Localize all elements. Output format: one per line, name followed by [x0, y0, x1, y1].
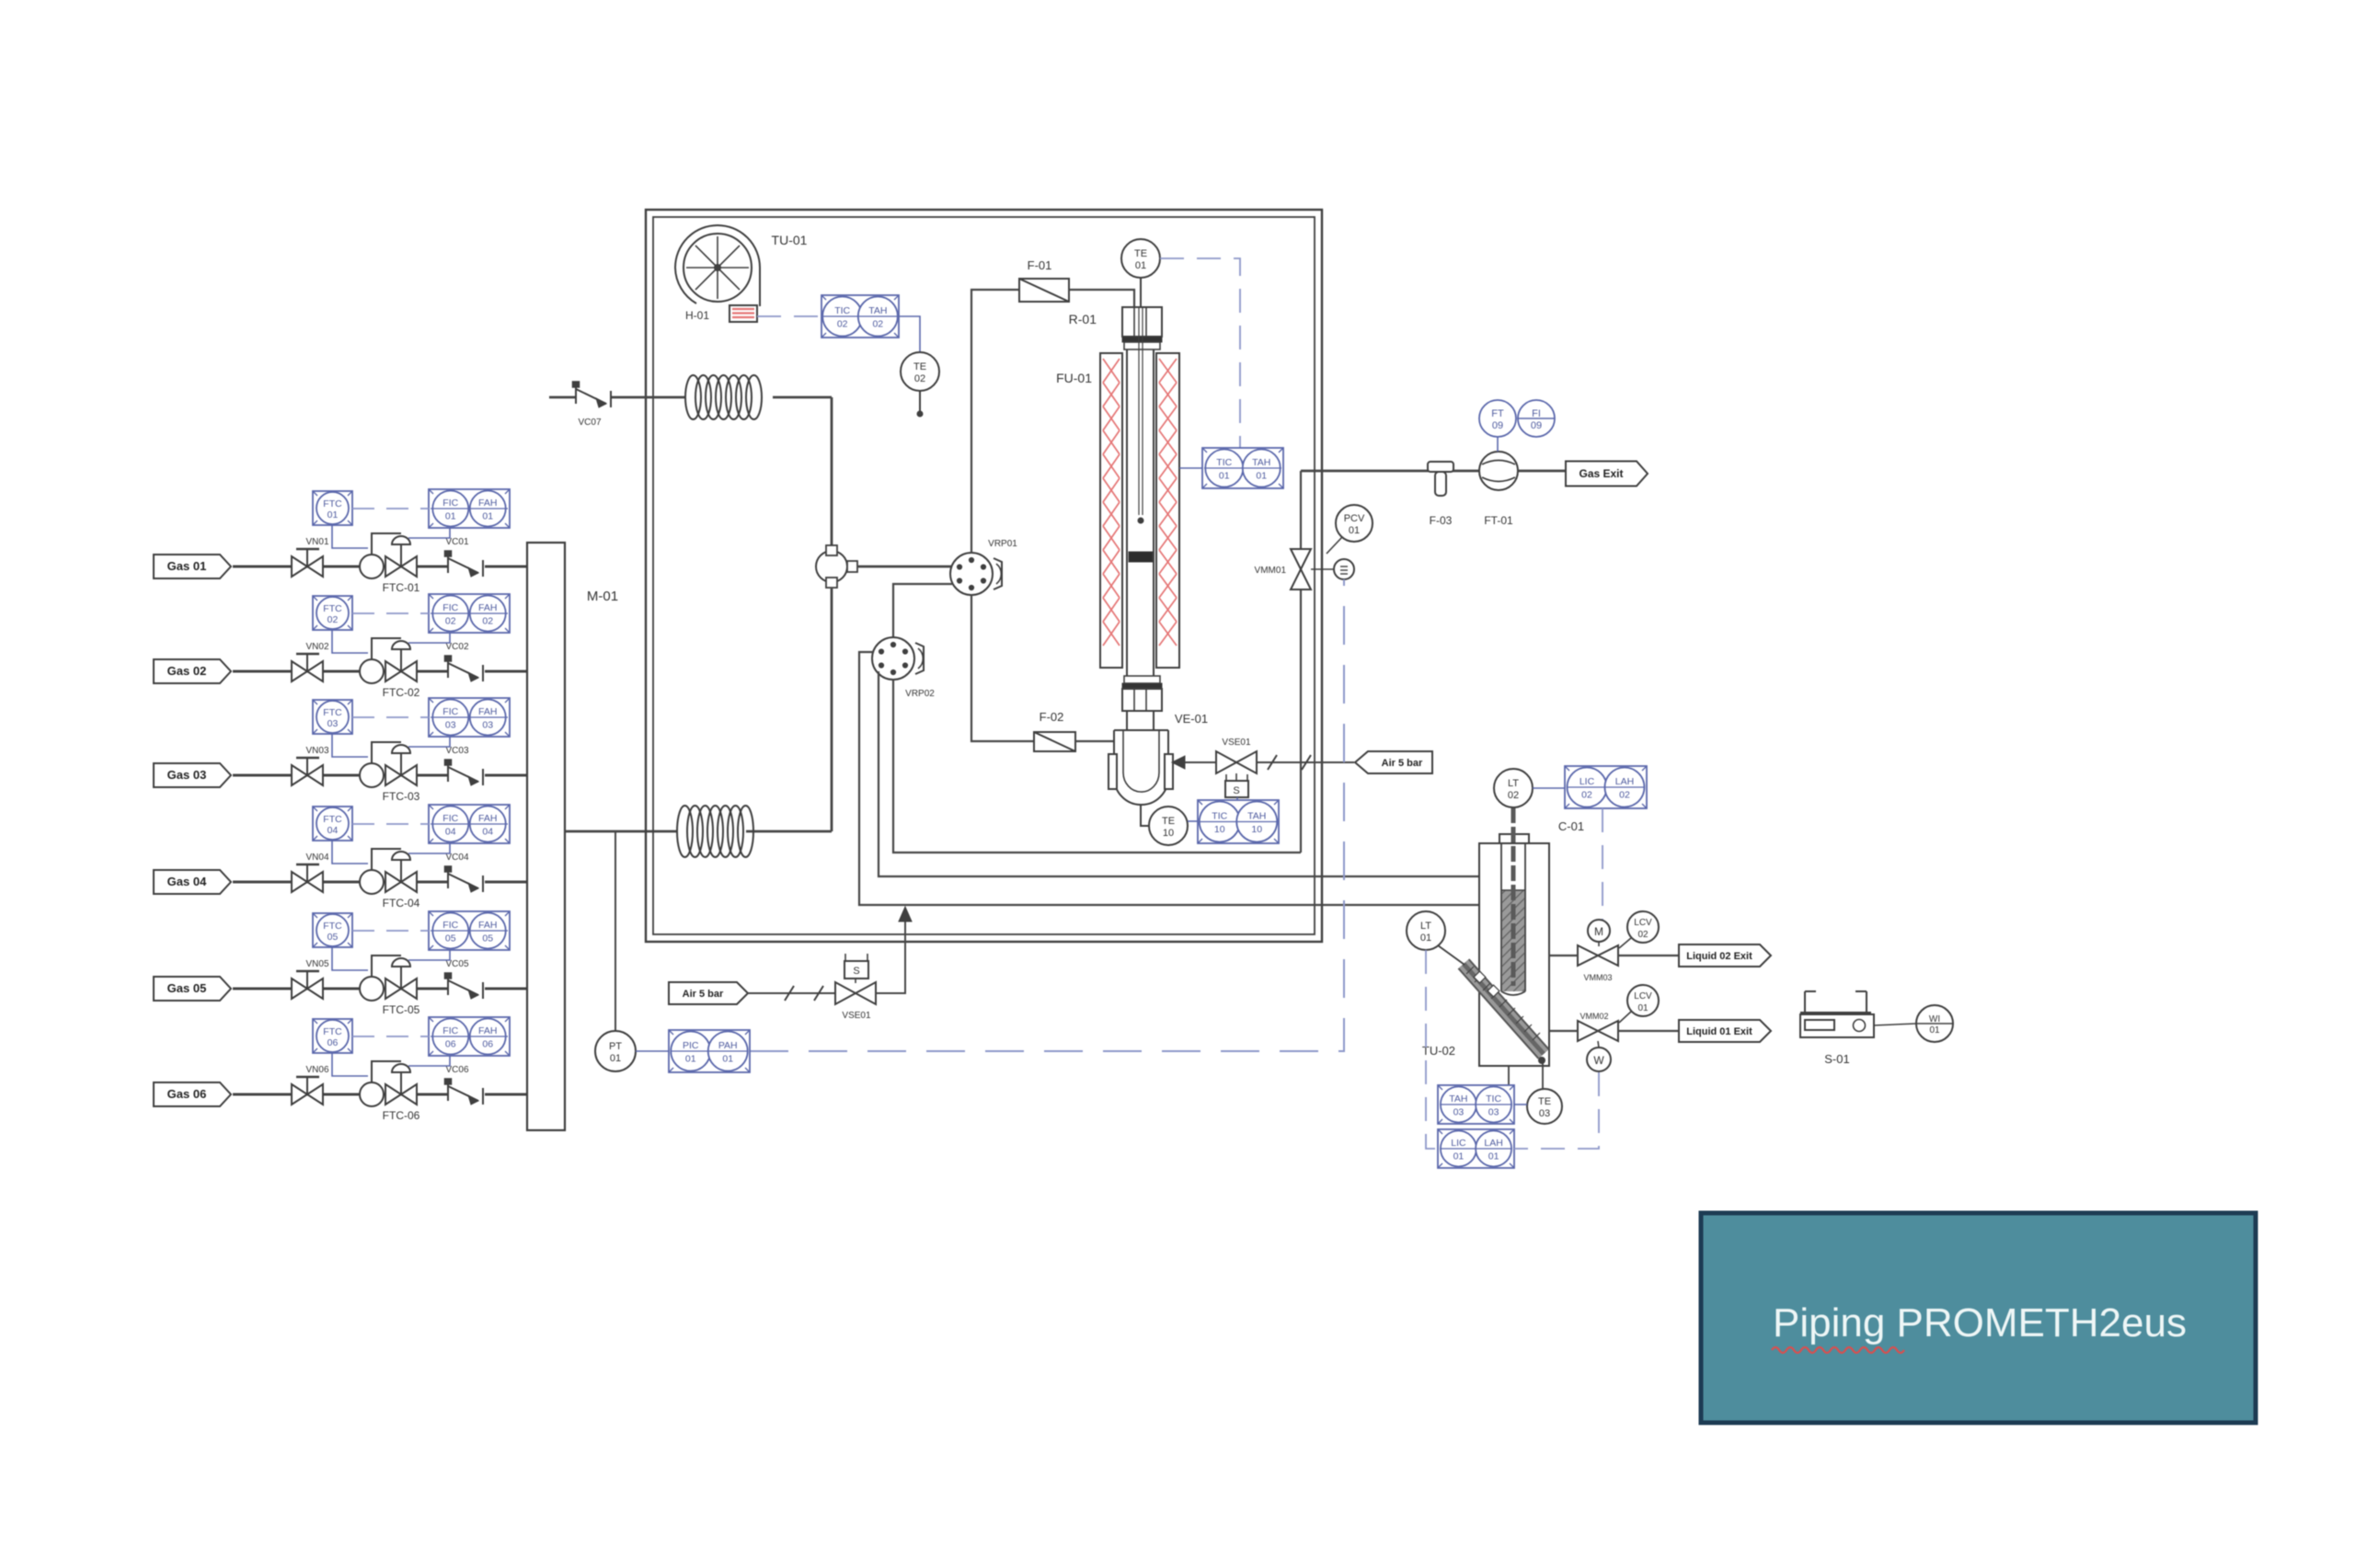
svg-text:10: 10 [1251, 824, 1262, 835]
svg-text:06: 06 [445, 1039, 456, 1050]
svg-text:FTC-03: FTC-03 [383, 790, 420, 803]
instrument pair FIC 03 / FAH 03 [429, 698, 510, 737]
heater TU-02 [1422, 964, 1544, 1058]
instrument FTC 04 (square) [313, 807, 352, 841]
svg-text:09: 09 [1492, 420, 1503, 431]
svg-text:02: 02 [1508, 790, 1519, 801]
signal line FTC 02 to valve [332, 630, 368, 653]
svg-text:S: S [1233, 785, 1239, 796]
instrument FTC 02 (square) [313, 596, 352, 630]
svg-text:M: M [1594, 925, 1603, 938]
instrument pair TIC 10 / TAH 10 [1198, 800, 1279, 843]
instrument FI 09 [1518, 400, 1555, 437]
gas inlet flag Gas 02 [154, 659, 231, 683]
pipe riser to mixing cross [831, 589, 833, 831]
svg-text:TAH: TAH [1247, 811, 1266, 822]
svg-text:R-01: R-01 [1069, 312, 1097, 326]
svg-text:04: 04 [445, 827, 456, 838]
svg-text:02: 02 [837, 319, 848, 330]
svg-text:LCV: LCV [1634, 918, 1652, 928]
svg-text:FAH: FAH [478, 706, 497, 717]
svg-text:01: 01 [1637, 1003, 1648, 1013]
svg-text:TE: TE [913, 361, 926, 372]
pipe gas line 06 [233, 1093, 527, 1096]
svg-text:TE: TE [1134, 248, 1147, 259]
svg-text:02: 02 [1637, 930, 1648, 940]
manual valve VN03 [292, 746, 329, 785]
signal line FIC 05 to valve [408, 950, 450, 960]
fan TU-01 [675, 225, 808, 306]
svg-text:FTC-05: FTC-05 [383, 1003, 420, 1016]
svg-text:FAH: FAH [478, 498, 497, 509]
air inlet flag Air 5 bar (bottom) [669, 982, 748, 1004]
svg-text:FT-01: FT-01 [1484, 514, 1513, 527]
signal dashed LIC 02 to motor valve [1602, 808, 1603, 920]
svg-text:VSE01: VSE01 [1222, 738, 1251, 748]
manual valve VN01 [292, 537, 329, 577]
mass flow controller FTC-03 [360, 742, 420, 803]
svg-text:WI: WI [1929, 1014, 1940, 1024]
instrument pair FIC 05 / FAH 05 [429, 911, 510, 950]
svg-text:03: 03 [1453, 1107, 1465, 1118]
level transmitter LT 01 [1407, 911, 1465, 965]
svg-text:FIC: FIC [442, 1025, 458, 1036]
signal dashed FTC 04 to FIC 04 [352, 823, 429, 825]
pressure transmitter PT 01 [595, 1031, 636, 1071]
svg-text:01: 01 [1349, 525, 1360, 536]
svg-text:02: 02 [327, 614, 339, 625]
level transmitter LT 02 [1494, 769, 1533, 807]
signal line FTC 03 to valve [332, 734, 368, 757]
pipe gas line 02 [233, 670, 527, 673]
instrument pair FIC 04 / FAH 04 [429, 805, 510, 843]
manual valve VN04 [292, 853, 329, 892]
svg-text:C-01: C-01 [1558, 819, 1584, 833]
condenser C-01 shell [1479, 819, 1584, 1066]
svg-text:10: 10 [1163, 828, 1174, 839]
svg-text:LIC: LIC [1451, 1138, 1466, 1149]
level probe LT 02 stem [1511, 807, 1516, 986]
liquid exit flag Liquid 01 Exit [1679, 1020, 1771, 1042]
svg-text:02: 02 [1581, 790, 1592, 801]
svg-text:H-01: H-01 [685, 309, 709, 322]
instrument pair TIC 01 / TAH 01 [1202, 448, 1283, 488]
instrument PCV 01 [1327, 505, 1373, 554]
svg-text:TAH: TAH [868, 305, 887, 316]
svg-text:01: 01 [1929, 1025, 1940, 1036]
svg-text:VN05: VN05 [305, 959, 328, 969]
reactor R-01 top cap [1122, 307, 1162, 349]
signal line TIC 03 to TE 03 [1514, 1104, 1527, 1105]
svg-text:W: W [1593, 1054, 1604, 1067]
signal dashed H-01 to TIC 02 [757, 315, 821, 317]
pipe VRP02 bottom port to gas exit riser [893, 680, 1301, 853]
signal line FU-01 to TIC 01 [1179, 467, 1202, 469]
svg-text:VRP01: VRP01 [988, 539, 1017, 549]
pipe VRP01 to F-02 [971, 595, 1034, 741]
svg-text:03: 03 [1539, 1108, 1550, 1119]
svg-text:VSE01: VSE01 [842, 1011, 871, 1021]
pipe air injection with arrow [876, 907, 912, 993]
signal line FTC 06 to valve [332, 1053, 368, 1076]
svg-text:01: 01 [1256, 471, 1267, 482]
svg-text:01: 01 [610, 1053, 621, 1064]
svg-text:VE-01: VE-01 [1175, 712, 1208, 726]
pipe F-01 to R-01 [1069, 290, 1134, 307]
signal dashed FTC 06 to FIC 06 [352, 1036, 429, 1037]
svg-text:VN06: VN06 [305, 1065, 328, 1075]
svg-text:LAH: LAH [1484, 1138, 1502, 1149]
instrument pair LIC 01 / LAH 01 [1438, 1129, 1514, 1168]
mass flow controller FTC-02 [360, 638, 420, 699]
svg-text:FAH: FAH [478, 602, 497, 613]
svg-text:02: 02 [1619, 790, 1630, 801]
electric heater H-01 [685, 305, 757, 322]
svg-text:02: 02 [482, 616, 493, 627]
svg-text:FIC: FIC [442, 920, 458, 931]
svg-text:Gas 04: Gas 04 [167, 875, 207, 888]
svg-text:FTC: FTC [323, 603, 342, 614]
svg-text:LIC: LIC [1580, 776, 1595, 787]
svg-text:FTC: FTC [323, 1026, 342, 1037]
furnace FU-01 right block [1156, 353, 1179, 668]
svg-text:PIC: PIC [683, 1040, 699, 1051]
svg-text:FTC: FTC [323, 814, 342, 825]
signal line FTC 05 to valve [332, 947, 368, 970]
svg-text:03: 03 [327, 718, 339, 729]
svg-text:Air 5 bar: Air 5 bar [1382, 758, 1423, 769]
svg-text:FTC-01: FTC-01 [383, 581, 420, 594]
svg-text:09: 09 [1531, 420, 1542, 431]
temperature element TE 03 [1527, 1089, 1562, 1124]
control valve VMM02 [1578, 1012, 1618, 1041]
signal line FIC 04 to valve [408, 843, 450, 853]
signal line VSE01 to TIC 10 [1236, 797, 1238, 800]
check valve VC06 [445, 1065, 484, 1104]
pipe VRP02 port to condenser C-01 (upper) [879, 671, 1479, 876]
svg-text:Air 5 bar: Air 5 bar [683, 989, 724, 1000]
check valve VC05 [445, 959, 484, 999]
svg-text:VN01: VN01 [305, 537, 328, 547]
liquid exit flag Liquid 02 Exit [1679, 944, 1771, 967]
svg-text:PCV: PCV [1344, 513, 1365, 524]
svg-text:01: 01 [327, 509, 339, 521]
svg-text:01: 01 [1420, 933, 1431, 944]
heating coil (lower) on mixed gas line [677, 806, 753, 857]
instrument pair FIC 06 / FAH 06 [429, 1017, 510, 1056]
svg-text:TE: TE [1162, 816, 1175, 827]
svg-text:01: 01 [685, 1054, 696, 1065]
svg-text:FAH: FAH [478, 920, 497, 931]
condenser C-01 liquid [1501, 890, 1525, 991]
pipe C-01 to Liquid 02 Exit [1549, 955, 1679, 956]
signal line FTC 01 to valve [332, 525, 368, 548]
label FU-01 [1056, 371, 1092, 385]
svg-text:VC07: VC07 [578, 418, 601, 428]
instrument LCV 02 [1619, 911, 1659, 948]
svg-text:PAH: PAH [718, 1040, 738, 1051]
pipe top feed line [549, 396, 832, 399]
signal dashed FTC 05 to FIC 05 [352, 930, 429, 932]
signal dashed FTC 03 to FIC 03 [352, 716, 429, 718]
svg-text:VRP02: VRP02 [905, 689, 935, 699]
pipe branch to PT 01 [615, 831, 616, 1031]
svg-text:FTC: FTC [323, 921, 342, 932]
pipe gas line 05 [233, 988, 527, 990]
pipe gas exit riser [1300, 471, 1302, 853]
motor actuator M [1588, 920, 1610, 946]
gas inlet flag Gas 06 [154, 1082, 231, 1106]
instrument FTC 06 (square) [313, 1019, 352, 1053]
svg-text:06: 06 [327, 1037, 339, 1048]
temperature element TE 01 [1121, 239, 1160, 307]
svg-text:Gas 01: Gas 01 [167, 559, 207, 573]
svg-text:FTC: FTC [323, 498, 342, 509]
enclosure box TU-01 oven (outer border) [646, 210, 1322, 942]
signal line FTC 04 to valve [332, 841, 368, 864]
reactor R-01 tube [1127, 349, 1154, 676]
instrument LCV 01 [1619, 985, 1659, 1023]
svg-text:TIC: TIC [1216, 457, 1232, 468]
pipe VRP01 to VRP02 [893, 584, 952, 637]
rotary valve VRP02 [872, 637, 935, 699]
instrument pair PIC 01 / PAH 01 [669, 1030, 750, 1072]
mass flow controller FTC-01 [360, 533, 420, 594]
svg-text:FIC: FIC [442, 498, 458, 509]
svg-text:03: 03 [482, 720, 493, 731]
filter F-02 [1034, 710, 1075, 751]
signal dashed LT 01 to LIC 01 [1426, 950, 1438, 1149]
mass flow controller FTC-06 [360, 1061, 420, 1122]
svg-text:TU-01: TU-01 [772, 233, 808, 247]
reactor R-01 thermowell [1129, 307, 1153, 562]
svg-text:01: 01 [482, 511, 493, 522]
manual valve VN06 [292, 1065, 329, 1104]
pipe mixing cross to VRP01 [857, 566, 951, 568]
svg-text:F-02: F-02 [1040, 710, 1064, 724]
signal dashed PCV loop (PIC 01 to I/P) [750, 579, 1344, 1051]
svg-text:Gas 03: Gas 03 [167, 768, 207, 782]
svg-text:TAH: TAH [1449, 1093, 1467, 1104]
air inlet flag Air 5 bar (to VE-01) [1355, 751, 1432, 773]
gas inlet flag Gas 01 [154, 555, 231, 578]
svg-text:PT: PT [609, 1041, 622, 1052]
svg-text:01: 01 [1219, 471, 1230, 482]
gas inlet flag Gas 04 [154, 870, 231, 894]
weight indicator WI 01 [1916, 1005, 1953, 1042]
svg-text:VMM01: VMM01 [1255, 566, 1287, 576]
svg-text:02: 02 [445, 616, 456, 627]
svg-text:VMM02: VMM02 [1580, 1012, 1608, 1021]
check valve VC04 [445, 853, 484, 892]
svg-text:VN02: VN02 [305, 642, 328, 652]
signal line FIC 01 to valve [408, 528, 450, 538]
signal dashed FTC 02 to FIC 02 [352, 612, 429, 614]
label R-01 [1069, 312, 1097, 326]
svg-text:FTC: FTC [323, 707, 342, 718]
pipe air to VE-01 [1258, 755, 1354, 770]
manual valve VN02 [292, 642, 329, 681]
svg-text:FTC-06: FTC-06 [383, 1109, 420, 1122]
mixing cross junction [816, 545, 857, 588]
signal line LT 02 to LIC 02 [1533, 787, 1565, 789]
svg-text:Gas 05: Gas 05 [167, 981, 207, 995]
check valve VC03 [445, 746, 484, 785]
svg-text:01: 01 [722, 1054, 733, 1065]
svg-text:01: 01 [1488, 1151, 1499, 1162]
svg-text:01: 01 [445, 511, 456, 522]
gas exit flag Gas Exit [1566, 462, 1648, 486]
actuator W [1587, 1041, 1611, 1071]
pipe C-01 to Liquid 01 Exit [1549, 1030, 1679, 1032]
svg-text:05: 05 [327, 932, 339, 943]
line C-01 to TAH 03 [1508, 1066, 1510, 1085]
gas inlet flag Gas 05 [154, 977, 231, 1001]
signal line PT 01 to PIC 01 [636, 1050, 669, 1052]
svg-text:TE: TE [1538, 1096, 1551, 1107]
svg-text:LCV: LCV [1634, 991, 1652, 1001]
svg-text:Liquid 02 Exit: Liquid 02 Exit [1686, 951, 1752, 962]
control valve VMM01 [1255, 549, 1311, 589]
mass flow controller FTC-05 [360, 956, 420, 1016]
svg-text:FIC: FIC [442, 813, 458, 824]
flow meter FT-01 [1479, 452, 1518, 527]
svg-text:Piping PROMETH2eus: Piping PROMETH2eus [1773, 1300, 2187, 1345]
svg-text:TU-02: TU-02 [1422, 1044, 1455, 1058]
instrument FTC 05 (square) [313, 913, 352, 947]
check valve VC01 [445, 537, 484, 577]
svg-text:F-01: F-01 [1028, 258, 1052, 272]
svg-text:10: 10 [1214, 824, 1225, 835]
svg-text:06: 06 [482, 1039, 493, 1050]
svg-text:VN03: VN03 [305, 746, 328, 756]
condenser C-01 dip tube [1501, 843, 1525, 995]
svg-text:LT: LT [1508, 778, 1519, 789]
svg-text:FT: FT [1491, 408, 1504, 419]
svg-text:04: 04 [327, 825, 339, 836]
svg-text:S-01: S-01 [1824, 1052, 1849, 1066]
pipe VRP02 left port to condenser C-01 (lower) [859, 652, 1479, 905]
svg-text:F-03: F-03 [1430, 514, 1453, 527]
gas inlet flag Gas 03 [154, 763, 231, 787]
svg-text:Gas 02: Gas 02 [167, 664, 207, 678]
svg-text:FTC-04: FTC-04 [383, 897, 420, 910]
temperature element TE 02 [901, 352, 939, 417]
svg-text:Liquid 01 Exit: Liquid 01 Exit [1686, 1026, 1752, 1037]
pipe F-02 to VE-01 [1075, 740, 1114, 742]
solenoid valve VSE01 (bottom) [835, 954, 876, 1021]
furnace FU-01 left block [1100, 353, 1122, 668]
balance S-01 [1800, 991, 1874, 1066]
signal dashed W to LAH 01 [1514, 1072, 1599, 1149]
instrument pair LIC 02 / LAH 02 [1565, 766, 1647, 808]
signal line FIC 03 to valve [408, 737, 450, 747]
svg-text:TAH: TAH [1252, 457, 1270, 468]
instrument pair FIC 02 / FAH 02 [429, 594, 510, 633]
signal line FIC 06 to valve [408, 1056, 450, 1066]
mixer M-01 [527, 543, 618, 1130]
svg-text:FIC: FIC [442, 602, 458, 613]
arrow air into VE-01 [1172, 756, 1216, 769]
svg-text:04: 04 [482, 827, 493, 838]
svg-text:Gas Exit: Gas Exit [1579, 467, 1623, 480]
svg-text:FAH: FAH [478, 1025, 497, 1036]
svg-text:FU-01: FU-01 [1056, 371, 1092, 385]
filter F-01 [1019, 258, 1069, 302]
svg-text:03: 03 [445, 720, 456, 731]
title box [1701, 1213, 2256, 1423]
svg-text:01: 01 [1135, 260, 1146, 271]
svg-text:TIC: TIC [834, 305, 850, 316]
signal line TIC 02 to TE 02 [899, 316, 920, 351]
instrument pair FIC 01 / FAH 01 [429, 489, 510, 528]
I/P converter [1311, 559, 1354, 579]
signal line TE 10 to TIC 10 [1188, 820, 1198, 822]
svg-text:FI: FI [1532, 408, 1541, 419]
svg-text:VN04: VN04 [305, 853, 328, 863]
reactor R-01 bottom cap [1122, 676, 1162, 711]
instrument FTC 01 (square) [313, 491, 352, 525]
instrument FTC 03 (square) [313, 700, 352, 734]
check valve VC02 [445, 642, 484, 681]
instrument pair TIC 02 / TAH 02 [821, 295, 899, 338]
mass flow controller FTC-04 [360, 849, 420, 910]
svg-text:02: 02 [914, 373, 925, 384]
svg-text:Gas 06: Gas 06 [167, 1087, 207, 1101]
pipe VRP01 to reactor top [971, 290, 1019, 553]
svg-text:LAH: LAH [1615, 776, 1634, 787]
drain F-03 [1428, 462, 1453, 527]
svg-text:FTC-02: FTC-02 [383, 686, 420, 699]
svg-text:S: S [853, 966, 859, 977]
svg-text:TIC: TIC [1486, 1093, 1501, 1104]
signal dashed FTC 01 to FIC 01 [352, 508, 429, 509]
control valve VMM03 [1578, 945, 1618, 982]
svg-text:03: 03 [1488, 1107, 1499, 1118]
svg-text:LT: LT [1420, 921, 1431, 932]
svg-text:01: 01 [1453, 1151, 1465, 1162]
signal line FIC 02 to valve [408, 633, 450, 643]
junction dot C-01 bottom [1539, 1058, 1545, 1090]
signal dashed TE 01 to TIC 01 [1160, 258, 1240, 448]
svg-text:02: 02 [872, 319, 883, 330]
pipe gas line 01 [233, 566, 527, 568]
solenoid valve VSE01 (VE-01) [1216, 738, 1257, 797]
instrument pair TAH 03 / TIC 03 [1438, 1085, 1514, 1124]
manual valve VN05 [292, 959, 329, 999]
vessel VE-01 [1109, 712, 1208, 805]
check valve VC07 [573, 382, 612, 428]
pipe gas exit [1301, 470, 1566, 473]
svg-text:TIC: TIC [1212, 811, 1227, 822]
svg-text:M-01: M-01 [587, 589, 618, 604]
pipe drop to mixing cross [831, 397, 833, 545]
temperature element TE 10 [1141, 805, 1188, 845]
pipe S-01 to WI 01 [1874, 1024, 1916, 1025]
svg-text:05: 05 [445, 933, 456, 944]
pipe gas line 04 [233, 881, 527, 884]
rotary valve VRP01 [950, 539, 1017, 595]
svg-text:05: 05 [482, 933, 493, 944]
instrument FT 09 [1479, 400, 1516, 452]
svg-text:VMM03: VMM03 [1583, 973, 1612, 982]
pipe air to VSE01 [748, 986, 835, 1001]
enclosure box TU-01 oven (inner border) [653, 217, 1315, 934]
heating coil (upper) on feed line [685, 375, 762, 419]
pipe gas line 03 [233, 774, 527, 777]
pipe M-01 outlet [565, 830, 832, 833]
reactor neck to VE-01 [1127, 711, 1154, 730]
